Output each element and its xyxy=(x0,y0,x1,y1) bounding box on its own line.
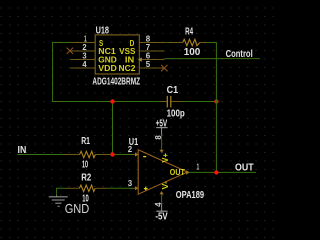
svg-text:4: 4 xyxy=(82,60,87,69)
wire: feedback column vertical xyxy=(215,43,217,173)
svg-text:2: 2 xyxy=(128,145,133,154)
resistor R1 zigzag xyxy=(80,151,96,157)
resistor R4 right lead xyxy=(200,42,206,44)
U1 output arrow at apex xyxy=(186,170,190,174)
U18 pin 4 (VDD) stub xyxy=(70,67,95,69)
svg-text:+5V: +5V xyxy=(156,118,168,129)
svg-text:Control: Control xyxy=(226,49,253,60)
no-ERC cross on pin 5 xyxy=(161,65,167,71)
U18 pin 3 (GND) stub xyxy=(70,59,95,61)
wire: Control net from pin 6 xyxy=(165,58,261,60)
wire: R2 to opamp pin3 xyxy=(108,187,132,189)
resistor R2 zigzag xyxy=(79,185,95,191)
resistor R2 right lead xyxy=(95,187,107,189)
svg-text:OUT: OUT xyxy=(170,168,185,177)
U18 pin 5 (NC2) stub xyxy=(139,67,164,69)
U1 pin 4 arrow xyxy=(160,191,164,194)
junction at C1 branch xyxy=(110,99,114,103)
wire: vertical branch down to R1 node xyxy=(112,102,114,155)
svg-text:-5V: -5V xyxy=(155,211,168,222)
svg-text:R4: R4 xyxy=(185,26,193,37)
wire: left vertical feedback xyxy=(52,43,54,102)
wire: +5V to opamp pin 8 xyxy=(161,135,163,150)
wire: pin8 D to R4 xyxy=(165,42,167,44)
chip U18 body xyxy=(95,35,139,74)
wire: pin1 S to left vertical xyxy=(52,42,70,44)
U18 pin 1 (S) stub xyxy=(70,42,95,44)
svg-text:VDD: VDD xyxy=(98,64,117,73)
resistor R1 right lead xyxy=(95,154,107,156)
wire: R4 to feedback column xyxy=(206,42,217,44)
svg-text:V+: V+ xyxy=(161,153,170,163)
capacitor C1 left lead xyxy=(160,101,167,103)
U18 pin 2 (NC1) stub xyxy=(70,50,95,52)
+5V power symbol xyxy=(156,128,167,136)
resistor R4 zigzag xyxy=(183,39,200,45)
U18 pin 8 (D) stub xyxy=(139,42,164,44)
wire: horizontal node to C1 left xyxy=(52,101,160,103)
-5V power symbol xyxy=(156,204,167,212)
U1 pin 2 stub with arrow xyxy=(131,154,136,156)
wire: IN to R1 xyxy=(17,154,64,156)
capacitor C1 right lead xyxy=(171,101,182,103)
U18 IN pin input arrow xyxy=(138,57,142,61)
svg-text:OUT: OUT xyxy=(235,162,254,173)
svg-text:ADG1402BRMZ: ADG1402BRMZ xyxy=(92,77,140,88)
svg-text:100: 100 xyxy=(184,47,201,58)
wire: opamp output to OUT port xyxy=(190,171,256,173)
U1 non-inverting input marker xyxy=(144,187,148,191)
U1 inverting input marker xyxy=(143,156,146,158)
svg-text:NC2: NC2 xyxy=(119,64,136,73)
U1 pin 8 arrow xyxy=(160,150,164,153)
junction R1/feedback node xyxy=(110,152,114,156)
svg-text:R1: R1 xyxy=(81,136,90,147)
svg-text:10: 10 xyxy=(82,159,88,170)
op-amp U1 body xyxy=(138,150,187,194)
svg-text:V-: V- xyxy=(161,181,170,190)
svg-text:1: 1 xyxy=(197,162,200,171)
svg-text:OPA189: OPA189 xyxy=(176,190,205,201)
wire: R1 to opamp pin2 xyxy=(108,154,132,156)
svg-text:GND: GND xyxy=(65,201,90,216)
U1 pin 3 stub with arrow xyxy=(131,187,136,189)
capacitor C1 plates xyxy=(166,96,168,108)
svg-text:C1: C1 xyxy=(167,85,179,96)
svg-text:U18: U18 xyxy=(96,26,110,37)
wire: opamp pin 4 to -5V xyxy=(161,194,163,204)
ground symbol GND xyxy=(49,196,68,207)
resistor R4 left lead xyxy=(167,42,183,44)
no-ERC cross on pin 2 xyxy=(67,48,73,54)
wire: GND riser to R2 xyxy=(57,188,65,195)
svg-text:5: 5 xyxy=(146,60,151,69)
U18 pin 7 (VSS) stub xyxy=(139,50,164,52)
junction output/feedback xyxy=(214,170,218,174)
wire: C1 right to vertical junction xyxy=(182,101,217,103)
resistor R2 left lead xyxy=(65,187,79,189)
svg-text:3: 3 xyxy=(128,179,133,188)
svg-text:R2: R2 xyxy=(81,172,91,183)
U18 pin 6 (IN) stub xyxy=(139,59,164,61)
svg-text:100p: 100p xyxy=(167,108,185,119)
junction at feedback column top xyxy=(214,99,218,103)
resistor R1 left lead xyxy=(65,154,80,156)
